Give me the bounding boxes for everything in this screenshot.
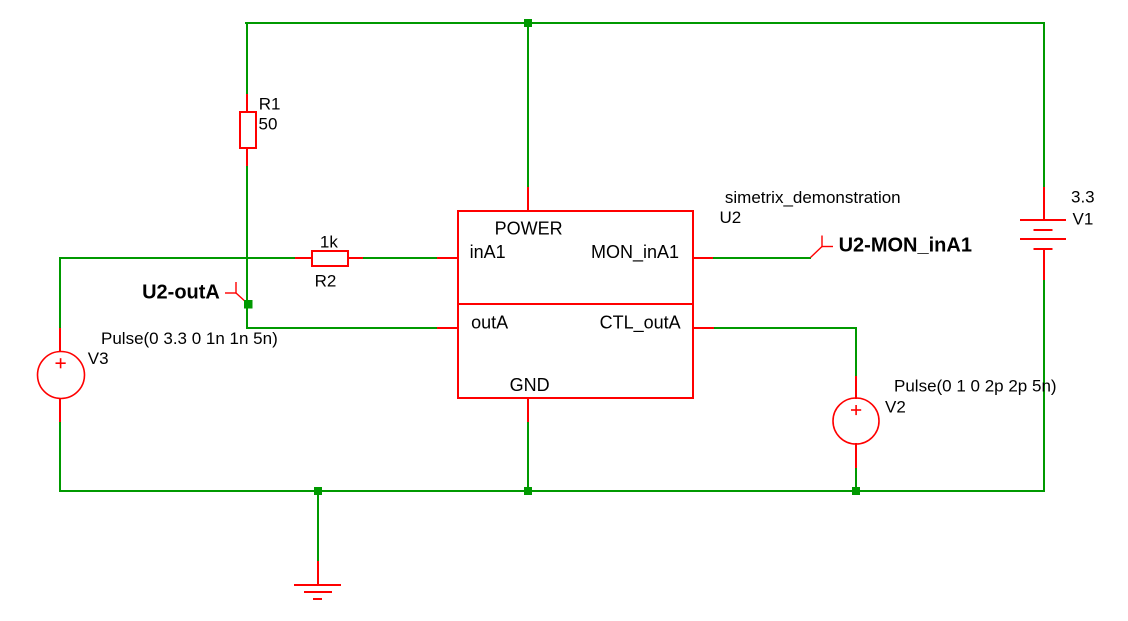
svg-text:V1: V1: [1073, 210, 1094, 229]
svg-text:U2-MON_inA1: U2-MON_inA1: [839, 234, 972, 256]
svg-text:simetrix_demonstration: simetrix_demonstration: [725, 188, 901, 207]
svg-text:POWER: POWER: [495, 219, 563, 239]
svg-text:R1: R1: [259, 95, 281, 114]
svg-text:Pulse(0 3.3 0 1n 1n 5n): Pulse(0 3.3 0 1n 1n 5n): [101, 329, 278, 348]
svg-text:U2-outA: U2-outA: [142, 282, 220, 304]
svg-text:inA1: inA1: [470, 242, 506, 262]
svg-text:GND: GND: [510, 375, 550, 395]
svg-text:Pulse(0 1 0 2p 2p 5n): Pulse(0 1 0 2p 2p 5n): [894, 377, 1057, 396]
svg-text:1k: 1k: [320, 233, 338, 252]
svg-text:R2: R2: [315, 272, 337, 291]
svg-text:V2: V2: [885, 398, 906, 417]
svg-text:50: 50: [259, 115, 278, 134]
svg-text:3.3: 3.3: [1071, 188, 1095, 207]
svg-text:CTL_outA: CTL_outA: [600, 313, 681, 334]
svg-text:U2: U2: [720, 208, 742, 227]
svg-text:V3: V3: [88, 349, 109, 368]
svg-text:MON_inA1: MON_inA1: [591, 242, 679, 263]
svg-text:outA: outA: [471, 313, 508, 333]
